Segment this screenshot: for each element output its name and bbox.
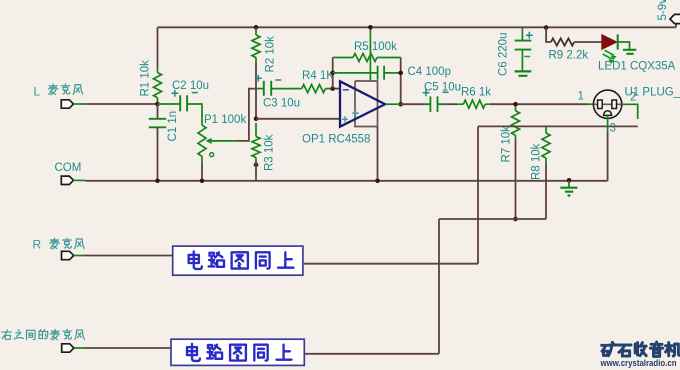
wire top power rail (158, 26, 677, 28)
label 5-9v (657, 0, 669, 21)
wire C1 bottom (157, 128, 159, 181)
wire pin2 net horizontal (478, 125, 638, 127)
port 5-9v (670, 14, 680, 23)
svg-text:R8 10k: R8 10k (531, 143, 543, 180)
svg-text:L: L (34, 85, 41, 99)
resistor R8 (542, 126, 550, 163)
resistor R4 (296, 85, 331, 93)
label pin 2 (630, 92, 636, 104)
wire R5 right (400, 58, 402, 105)
svg-text:R3 10k: R3 10k (264, 134, 276, 171)
wire plug pin2 (622, 104, 638, 119)
label R3 10k (264, 134, 276, 171)
label C3 10u (263, 98, 300, 110)
label R9 2.2k (549, 50, 589, 62)
node R7 top junction (513, 102, 518, 107)
port R input (62, 251, 74, 259)
node R2 top junction (254, 25, 259, 30)
wire R9 drop (546, 28, 551, 42)
svg-text:R7 10k: R7 10k (501, 126, 513, 163)
wire COM rail (86, 180, 608, 182)
wire C1 top (157, 104, 159, 118)
capacitor C6 (515, 32, 533, 57)
resistor R7 (512, 107, 520, 140)
wire box1 output (304, 263, 478, 265)
wire op-amp V+ pin (369, 27, 371, 81)
svg-text:R9 2.2k: R9 2.2k (549, 50, 589, 62)
label R microphone (33, 238, 85, 252)
wire R input (74, 255, 173, 257)
svg-text:C6 220u: C6 220u (498, 33, 510, 76)
label R5 100k (354, 41, 397, 53)
node P1-COM junction (200, 179, 205, 184)
label L microphone (34, 84, 83, 99)
node op-amp V- COM junction (375, 179, 380, 184)
label P1 100k (204, 114, 246, 126)
node C4 left junction (330, 71, 335, 76)
svg-text:R: R (33, 238, 42, 252)
label C1 1n (167, 111, 179, 142)
wire plug pin3 (607, 116, 609, 181)
wire R6 to plug pin1 (490, 103, 594, 105)
wire C6 bottom (521, 50, 523, 71)
svg-text:3: 3 (610, 123, 616, 135)
resistor R2 (252, 31, 260, 63)
label C4 100p (408, 66, 451, 78)
capacitor C3 (255, 75, 281, 96)
svg-text:1: 1 (578, 91, 584, 103)
wire C2 right to P1 (188, 104, 202, 118)
svg-text:COM: COM (55, 162, 82, 174)
svg-text:R4 1K: R4 1K (302, 70, 334, 82)
wire C2 left (158, 103, 180, 105)
label R7 10k (501, 126, 513, 163)
port COM (61, 176, 73, 184)
capacitor C5 (423, 89, 449, 112)
label COM (55, 162, 82, 174)
node C1-COM junction (155, 179, 160, 184)
wire R7R8 bottom net (439, 218, 546, 220)
wire L input to node (86, 103, 158, 105)
label pin 1 (578, 91, 584, 103)
node minus input junction (330, 86, 335, 91)
ground LED (623, 50, 636, 54)
label OP1 RC4558 (302, 134, 370, 146)
label R8 10k (531, 143, 543, 180)
node C4 right junction (398, 71, 403, 76)
svg-text:R5 100k: R5 100k (354, 41, 397, 53)
label R4 1K (302, 70, 334, 82)
resistor R5 (333, 54, 401, 62)
wire op-amp V- to COM (377, 127, 379, 181)
svg-text:R1 10k: R1 10k (140, 60, 152, 97)
wire R8 bottom (545, 163, 547, 219)
svg-text:C4 100p: C4 100p (408, 66, 451, 78)
resistor R1 (154, 68, 162, 105)
node L-R1-C1-C2 junction (155, 102, 160, 107)
svg-text:C1 1n: C1 1n (167, 111, 179, 142)
wire C4 left (333, 72, 369, 74)
svg-text:www.crystalradio.cn: www.crystalradio.cn (600, 358, 677, 368)
wire feedback left column (332, 58, 334, 89)
wire LED cathode (618, 42, 630, 49)
svg-text:5-9v: 5-9v (657, 0, 669, 21)
svg-text:LED1 CQX35A: LED1 CQX35A (598, 61, 676, 73)
label U1 PLUG_3 (625, 86, 680, 98)
node B plus-input junction (254, 117, 259, 122)
ground C6 (515, 71, 532, 75)
svg-text:C2 10u: C2 10u (172, 80, 209, 92)
wire op-amp output (386, 103, 425, 105)
svg-text:P1 100k: P1 100k (204, 114, 246, 126)
capacitor C4 (369, 66, 392, 80)
capacitor C1 (149, 119, 166, 128)
wire op-amp body outline (355, 81, 378, 127)
block same-circuit 2 (171, 339, 304, 365)
label LED1 CQX35A (598, 61, 676, 73)
wire C6 top (521, 27, 523, 40)
wire pin2 net vertical (477, 126, 479, 263)
node output junction (398, 102, 403, 107)
label middle microphone (2, 329, 85, 340)
resistor R9 (551, 38, 574, 45)
node R3 bottom junction (254, 163, 259, 168)
label C5 10u (424, 82, 461, 94)
node R7 bottom junction (513, 217, 518, 222)
capacitor C2 (171, 90, 197, 112)
port middle input (62, 344, 74, 352)
node R9 junction (544, 25, 549, 30)
wire C3 right (272, 88, 296, 90)
wire middle input (74, 347, 171, 349)
label R6 1k (461, 87, 491, 99)
potentiometer P1 (198, 118, 237, 163)
wire R2 bottom to node B (255, 27, 257, 119)
wire box2 output (304, 353, 439, 355)
label C2 10u (172, 80, 209, 92)
label R2 10k (265, 36, 277, 73)
LED LED1 (602, 34, 618, 64)
svg-text:C5 10u: C5 10u (424, 82, 461, 94)
node COM ground junction (567, 178, 572, 183)
logo crystalradio (600, 342, 680, 368)
resistor R3 (252, 123, 260, 161)
op-amp OP1 (340, 81, 385, 126)
wire R4 to minus node (331, 88, 340, 90)
wire P1 wiper to C3 (237, 89, 264, 141)
wire 5-9v stub (675, 23, 677, 28)
wire R3 to COM (255, 161, 257, 181)
wire R1 top (157, 27, 159, 67)
svg-text:R6 1k: R6 1k (461, 87, 491, 99)
connector U1 plug (593, 90, 621, 118)
port L input (61, 100, 73, 108)
wire L input pin (74, 103, 87, 105)
node op-amp V+ junction (368, 25, 373, 30)
label R1 10k (140, 60, 152, 97)
resistor R6 (457, 100, 490, 108)
wire P1 bottom (201, 163, 203, 181)
block same-circuit 1 (173, 246, 303, 275)
wire bottom net vertical (438, 219, 440, 354)
wire C4 right (392, 72, 401, 74)
svg-text:C3 10u: C3 10u (263, 98, 300, 110)
svg-text:2: 2 (630, 92, 636, 104)
label pin 3 (610, 123, 616, 135)
label C6 220u (498, 33, 510, 76)
svg-text:R2 10k: R2 10k (265, 36, 277, 73)
wire node B to op-amp plus input (256, 118, 340, 120)
wire R9 to LED (574, 41, 602, 43)
wire R7 bottom (515, 140, 517, 220)
svg-text:OP1 RC4558: OP1 RC4558 (302, 134, 370, 146)
wire COM pin (74, 179, 87, 181)
wire C5 to R6 (444, 103, 457, 105)
ground COM (560, 181, 577, 196)
